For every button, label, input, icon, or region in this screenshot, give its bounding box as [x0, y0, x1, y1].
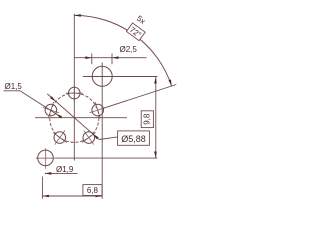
dimension 6,8 : right arrow [96, 195, 103, 198]
svg-text:6,8: 6,8 [87, 186, 99, 195]
dimension 9,8 : bottom extension line [57, 157, 158, 159]
dimension Ø2,5 : extension tick right [111, 54, 113, 65]
label box 72deg (rotated) [126, 23, 145, 41]
dimension Ø2,5 : dimension line [74, 57, 146, 59]
label Ø1,5 underline shoulder [4, 90, 21, 92]
svg-text:9,8: 9,8 [142, 113, 151, 125]
arc end arrowhead [169, 80, 172, 87]
label Ø1,9 underline shoulder [45, 172, 78, 174]
dimension Ø5,88 lower arrow at bolt circle [93, 134, 99, 139]
circle Ø1,9 [38, 150, 54, 166]
dimension Ø2,5 : right outside arrow [112, 56, 119, 59]
dimension Ø5,88 leader shoulder to box [99, 137, 118, 140]
dimension 9,8 : top arrow [154, 77, 157, 84]
dimension 6,8 : left arrow [42, 195, 49, 198]
circle Ø1,9 horizontal centerline (merges with 9,8 extension) [36, 157, 57, 159]
hole H3 Ø1,5 at 234 deg [53, 131, 67, 145]
dimension 9,8 : bottom arrow [154, 152, 157, 159]
dimension Ø2,5 : left outside arrow [85, 56, 92, 59]
dimension 9,8 : box [141, 111, 153, 128]
label Ø1,5 leader arrowhead [56, 114, 62, 119]
hole H1 Ø1,5 at 90 deg [66, 85, 83, 102]
large circle vertical centerline (also 6,8 right extension) [101, 63, 103, 199]
hole H2 Ø1,5 at 162 deg [43, 102, 59, 118]
dimension 6,8 : box [83, 185, 102, 196]
dimension 6,8 : left extension line [41, 177, 43, 199]
svg-text:Ø2,5: Ø2,5 [120, 45, 138, 54]
arc start arrowhead [74, 14, 81, 17]
main vertical centerline through bolt center [73, 14, 75, 161]
svg-text:Ø1,5: Ø1,5 [5, 82, 23, 91]
label Ø1,9 arrowhead [45, 172, 52, 175]
large circle horizontal centerline (also 9,8 top extension) [83, 76, 157, 78]
bolt circle Ø5,88 (dashed) [50, 93, 99, 142]
svg-text:5x: 5x [135, 14, 147, 26]
angular dimension arc 72deg [74, 15, 171, 86]
hole H4 Ø1,5 at 306 deg [82, 131, 96, 145]
dimension Ø5,88 upper arrow at bolt circle [50, 96, 56, 101]
dimension Ø5,88 box [118, 131, 150, 145]
large circle Ø2,5 [92, 66, 112, 86]
bolt-center horizontal centerline [35, 117, 127, 119]
label Ø1,5 leader line into hole H2 [20, 91, 61, 117]
svg-text:Ø1,9: Ø1,9 [56, 165, 74, 174]
dimension Ø5,88 diagonal diameter line [47, 94, 99, 140]
circle Ø1,9 vertical centerline [45, 148, 47, 169]
dimension 9,8 : vertical dimension line [155, 77, 157, 158]
dimension Ø2,5 : extension tick left [91, 54, 93, 65]
svg-text:Ø5,88: Ø5,88 [121, 134, 146, 144]
radial line at 18 deg through hole H5 [103, 85, 176, 109]
dimension 6,8 : dimension line [42, 195, 102, 197]
hole H5 Ø1,5 at 18 deg [90, 102, 106, 118]
